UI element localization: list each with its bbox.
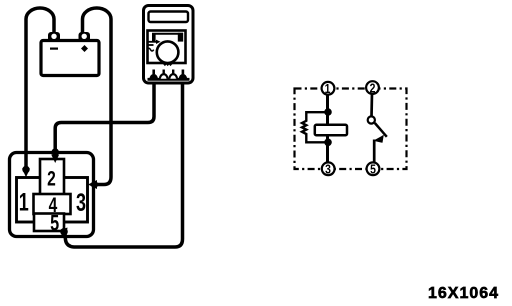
junction dot and arrow at pin 2 <box>52 148 59 155</box>
relay switch fixed contact <box>368 116 375 123</box>
battery negative mark <box>50 48 58 50</box>
svg-text:5: 5 <box>50 211 59 236</box>
multimeter range line <box>148 44 154 46</box>
battery positive mark <box>81 45 88 52</box>
relay outline dash-dot <box>295 89 407 170</box>
multimeter display <box>149 12 189 23</box>
multimeter scale window top line <box>152 33 183 35</box>
multimeter jack 1 <box>150 70 158 79</box>
wire battery negative to connector pin 1 <box>26 8 54 167</box>
relay switch arrow <box>373 135 384 143</box>
relay pin 5 <box>367 162 380 176</box>
svg-text:3: 3 <box>76 188 86 217</box>
junction dot upper <box>324 108 332 116</box>
relay coil <box>315 125 347 135</box>
multimeter dial <box>157 41 179 63</box>
svg-text:2: 2 <box>370 81 376 95</box>
relay pin 2 <box>366 81 379 96</box>
multimeter jack bar <box>148 78 190 81</box>
svg-text:5: 5 <box>370 162 376 176</box>
junction dot lower <box>324 139 332 147</box>
svg-text:3: 3 <box>325 162 331 176</box>
relay pin 3 <box>322 162 335 176</box>
relay switch wire lower <box>373 140 376 163</box>
connector inner outline <box>17 178 88 223</box>
connector cavity 5 <box>34 214 64 232</box>
svg-text:1: 1 <box>19 188 29 217</box>
wire multimeter left lead to connector pin 2 <box>55 74 154 149</box>
connector outer outline <box>10 153 94 237</box>
relay switch wire upper <box>370 93 373 117</box>
multimeter range arrow <box>148 41 157 43</box>
relay switch blade <box>375 123 387 137</box>
relay coil branch wire <box>326 94 329 163</box>
wire multimeter right lead to connector pin 5 <box>65 74 183 247</box>
multimeter panel <box>148 31 186 64</box>
svg-text:16X1064: 16X1064 <box>428 285 499 302</box>
multimeter body <box>144 6 194 84</box>
connector cavity 2 <box>40 159 64 195</box>
resistor parallel to coil <box>302 112 328 142</box>
multimeter jack 4 <box>179 70 187 79</box>
svg-text:1: 1 <box>325 82 331 96</box>
multimeter scale window left bar <box>152 33 156 42</box>
junction dot and arrow at pin 3 <box>91 181 98 188</box>
wire battery positive to connector pin 3 <box>83 8 112 185</box>
multimeter jack 2 <box>160 70 168 79</box>
relay pin 1 <box>322 82 335 96</box>
junction dot and arrow at pin 1 <box>22 166 29 173</box>
multimeter dial notch <box>164 64 172 66</box>
connector cavity 4 <box>34 194 71 214</box>
battery <box>41 32 99 76</box>
multimeter scale window right block <box>178 33 183 42</box>
svg-text:2: 2 <box>47 166 56 190</box>
junction dot and arrow at pin 5 <box>60 228 68 236</box>
multimeter wave mark <box>147 48 153 51</box>
multimeter jack 3 <box>169 70 177 79</box>
